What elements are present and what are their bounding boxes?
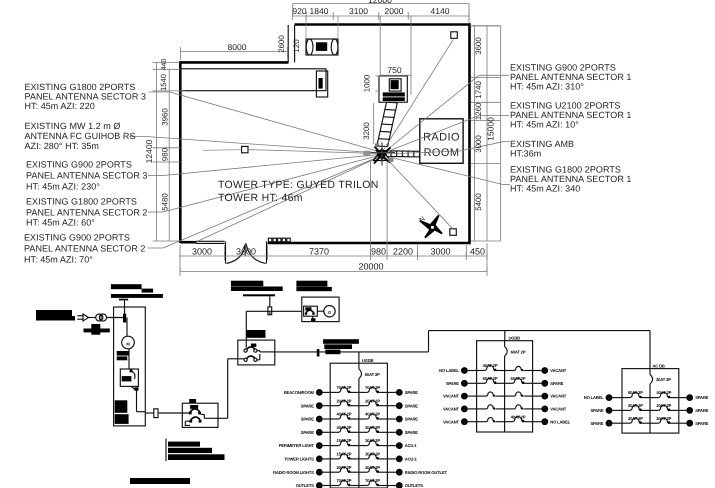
svg-text:VACANT: VACANT [550, 368, 567, 373]
ATS box utility side [182, 403, 218, 427]
svg-text:5480: 5480 [161, 193, 170, 211]
utility source label [36, 310, 72, 316]
svg-text:70AT 2P: 70AT 2P [365, 478, 380, 483]
generator set box [302, 297, 339, 322]
svg-text:8: 8 [543, 407, 546, 413]
panelboard AC DB [622, 369, 679, 434]
svg-text:40AT 2P: 40AT 2P [337, 412, 352, 417]
svg-text:3600: 3600 [236, 247, 256, 257]
svg-text:980: 980 [371, 247, 386, 257]
svg-text:2000: 2000 [385, 6, 404, 16]
fuel tank cylinder [306, 39, 338, 55]
svg-text:VACANT: VACANT [443, 407, 460, 412]
leader line G1800 sector2 [148, 211, 163, 213]
leader line U2100 sector1 [385, 116, 479, 153]
wire breaker down and out [136, 391, 138, 412]
main breaker box in cubicle [120, 369, 138, 386]
cubicle bottom label bars [115, 400, 128, 413]
cubicle heading label [111, 284, 142, 289]
svg-text:NO LABEL: NO LABEL [550, 419, 570, 424]
junction dot at incoming [123, 314, 126, 323]
svg-text:7: 7 [318, 430, 321, 436]
gate swing arcs [227, 244, 246, 264]
svg-text:RADIO: RADIO [423, 132, 460, 144]
svg-text:HT: 45m AZI: 230°: HT: 45m AZI: 230° [26, 182, 100, 192]
svg-text:9: 9 [463, 419, 466, 425]
svg-text:TOWER LIGHTS: TOWER LIGHTS [284, 457, 314, 462]
svg-text:1740: 1740 [474, 81, 483, 99]
svg-text:14: 14 [397, 470, 403, 476]
svg-text:10: 10 [397, 443, 403, 449]
transfer switch contacts lower [244, 358, 247, 361]
meter cubicle [114, 307, 146, 426]
horizontal cable ladder to radio room [388, 150, 420, 153]
svg-text:HT:36m: HT:36m [510, 149, 541, 159]
svg-text:4140: 4140 [431, 6, 450, 16]
dimension 8000 [181, 51, 288, 53]
svg-text:EXISTING AMB: EXISTING AMB [510, 139, 574, 149]
bus label bars [323, 339, 359, 344]
svg-text:3000: 3000 [474, 135, 483, 153]
svg-text:12: 12 [397, 457, 403, 463]
svg-text:6: 6 [543, 394, 546, 400]
cable ladder to tower from pad [377, 102, 387, 146]
svg-text:VACANT: VACANT [443, 419, 460, 424]
svg-text:AZI: 280° HT: 35m: AZI: 280° HT: 35m [25, 141, 99, 151]
ATS output wire [204, 417, 227, 419]
wire down to meter [126, 318, 128, 337]
svg-text:NO LABEL: NO LABEL [439, 368, 459, 373]
title bar [130, 478, 190, 484]
svg-text:20AT 2P: 20AT 2P [656, 403, 671, 408]
svg-text:VACANT: VACANT [550, 407, 567, 412]
svg-text:3200: 3200 [362, 122, 371, 140]
svg-text:750: 750 [387, 65, 401, 75]
svg-text:3000: 3000 [430, 247, 450, 257]
svg-text:5: 5 [608, 421, 611, 427]
generator earth stub [312, 316, 314, 319]
svg-text:SPARE: SPARE [695, 421, 708, 426]
UGDB circuit row 5 [316, 442, 323, 449]
svg-text:15000: 15000 [486, 117, 496, 141]
svg-text:PANEL ANTENNA SECTOR 2: PANEL ANTENNA SECTOR 2 [24, 244, 145, 254]
dimension 12000 top [293, 3, 469, 5]
svg-text:30AT 2P: 30AT 2P [365, 452, 380, 457]
meter label bars [117, 351, 130, 356]
guy anchor left [242, 146, 248, 152]
svg-text:11: 11 [317, 457, 322, 463]
svg-text:EXISTING G900 2PORTS: EXISTING G900 2PORTS [510, 63, 616, 73]
svg-text:9: 9 [318, 443, 321, 449]
UGDB circuit row 7 [316, 469, 323, 476]
leader line G1800 sector1 [385, 156, 503, 185]
bus riser to upper level [428, 331, 430, 352]
svg-text:70AT 2P: 70AT 2P [337, 385, 352, 390]
AC DB circuit row 2 [606, 407, 613, 414]
svg-text:HT: 45m AZI: 10°: HT: 45m AZI: 10° [510, 120, 579, 130]
AC DB circuit row 1 [606, 394, 613, 401]
svg-text:980: 980 [161, 147, 170, 161]
wall jog strip 2600 [287, 25, 289, 62]
svg-text:7: 7 [463, 407, 466, 413]
svg-text:EXISTING MW 1.2 m Ø: EXISTING MW 1.2 m Ø [25, 121, 121, 131]
svg-text:1000: 1000 [363, 74, 372, 92]
leader line MW antenna [129, 136, 146, 138]
riser into panelboard UGDB1 [358, 352, 360, 363]
svg-text:10: 10 [542, 419, 548, 425]
svg-text:PANEL ANTENNA SECTOR 1: PANEL ANTENNA SECTOR 1 [510, 72, 631, 82]
svg-text:1: 1 [608, 395, 611, 401]
riser into panelboard UGDB2 [504, 331, 506, 341]
svg-text:ANTENNA FC GUIHOB RS: ANTENNA FC GUIHOB RS [25, 131, 136, 141]
svg-text:OUTLETS: OUTLETS [296, 483, 314, 488]
svg-text:PANEL ANTENNA SECTOR 2: PANEL ANTENNA SECTOR 2 [26, 208, 147, 218]
ATS breaker upper [189, 412, 192, 415]
svg-text:RADIO ROOM LIGHTS: RADIO ROOM LIGHTS [273, 470, 314, 475]
svg-text:60AT 2P: 60AT 2P [483, 376, 498, 381]
svg-text:20AT 2P: 20AT 2P [656, 416, 671, 421]
svg-text:SPARE: SPARE [695, 408, 708, 413]
svg-text:SPARE: SPARE [446, 381, 459, 386]
dimension row 920/1840/3100/2000/4140 [293, 15, 469, 17]
svg-text:4: 4 [688, 408, 691, 414]
svg-text:G: G [328, 310, 331, 315]
cabinet at walkway end [316, 71, 327, 97]
north arrow [418, 215, 442, 237]
svg-text:40AT 2P: 40AT 2P [365, 412, 380, 417]
svg-text:40AT 2P: 40AT 2P [511, 414, 526, 419]
UGDB circuit row 2 [461, 380, 468, 387]
svg-text:4: 4 [398, 403, 401, 409]
svg-text:2200: 2200 [393, 247, 413, 257]
guy wire to south-west [197, 157, 380, 242]
UGDB circuit row 8 [316, 482, 323, 488]
metering CT coupling circles [96, 314, 103, 321]
svg-text:EXISTING G900 2PORTS: EXISTING G900 2PORTS [24, 233, 130, 243]
equipment 750 pad [379, 76, 407, 102]
svg-text:920: 920 [292, 6, 306, 16]
guy wire to bottom-right anchor [385, 157, 453, 229]
svg-text:5: 5 [318, 417, 321, 423]
svg-text:440: 440 [161, 59, 168, 71]
svg-text:UGDB: UGDB [362, 358, 374, 363]
svg-text:70AT 2P: 70AT 2P [337, 478, 352, 483]
fuse link [154, 409, 158, 418]
generator breaker sub-box [304, 306, 318, 316]
UGDB circuit row 1 [316, 389, 323, 396]
svg-text:20AT 2P: 20AT 2P [337, 465, 352, 470]
wire cubicle to fuse [145, 412, 154, 414]
svg-text:SPARE: SPARE [301, 403, 314, 408]
generator feeder label [231, 281, 263, 287]
svg-text:15: 15 [317, 483, 323, 488]
svg-text:20000: 20000 [358, 262, 383, 272]
svg-text:450: 450 [470, 247, 485, 257]
svg-text:30AT 2P: 30AT 2P [365, 438, 380, 443]
dimension 750 [380, 74, 411, 76]
svg-text:1540: 1540 [159, 74, 168, 91]
svg-text:6: 6 [688, 421, 691, 427]
UGDB circuit row 5 [461, 418, 468, 425]
transfer switch contacts upper [244, 349, 247, 352]
transformer cross symbol [91, 324, 100, 335]
svg-text:UGDB: UGDB [509, 335, 521, 340]
svg-text:EXISTING G1800 2PORTS: EXISTING G1800 2PORTS [26, 197, 137, 207]
gate posts [225, 242, 227, 264]
svg-text:1840: 1840 [310, 6, 329, 16]
AC DB circuit row 3 [606, 420, 613, 427]
svg-text:NO LABEL: NO LABEL [584, 395, 604, 400]
svg-text:SPARE: SPARE [405, 430, 418, 435]
svg-text:5: 5 [463, 394, 466, 400]
svg-text:SPARE: SPARE [301, 430, 314, 435]
leader line G900 sector3 [148, 175, 163, 177]
UGDB circuit row 3 [461, 393, 468, 400]
svg-text:3000: 3000 [192, 247, 212, 257]
kwh meter M [122, 336, 135, 349]
dimension 3200 vertical [373, 103, 375, 144]
compound wall top-right [268, 25, 470, 244]
bottom dimension row [180, 255, 487, 257]
svg-text:2: 2 [543, 368, 546, 374]
leader line G900 sector2 [148, 247, 163, 249]
bottom dimension 20000 [180, 271, 487, 273]
svg-text:PERIMETER LIGHT: PERIMETER LIGHT [279, 443, 315, 448]
compound wall left and top [180, 62, 288, 243]
svg-text:SPARE: SPARE [550, 381, 563, 386]
svg-text:SPARE: SPARE [405, 390, 418, 395]
cattle grid [268, 238, 271, 242]
radio room [420, 119, 463, 164]
UGDB circuit row 1 [461, 367, 468, 374]
svg-text:60AT 2P: 60AT 2P [511, 349, 526, 354]
guy anchor top-right [451, 32, 458, 39]
svg-text:3: 3 [463, 381, 466, 387]
svg-text:SPARE: SPARE [590, 421, 603, 426]
tower guyed trilon [364, 143, 396, 166]
UGDB circuit row 2 [316, 402, 323, 409]
leader line G900 sector1 [385, 75, 479, 151]
svg-text:60AT 2P: 60AT 2P [628, 390, 643, 395]
svg-text:TOWER TYPE: GUYED TRILON: TOWER TYPE: GUYED TRILON [218, 179, 379, 191]
guy wire to left anchor [248, 150, 379, 154]
UGDB circuit row 6 [316, 456, 323, 463]
svg-text:SPARE: SPARE [590, 408, 603, 413]
svg-text:PANEL ANTENNA SECTOR 1: PANEL ANTENNA SECTOR 1 [510, 110, 631, 120]
svg-text:4: 4 [543, 381, 546, 387]
walkway rectangle [180, 69, 326, 91]
svg-text:RADIO ROOM OUTLET: RADIO ROOM OUTLET [405, 470, 448, 475]
svg-text:20AT 2P: 20AT 2P [365, 398, 380, 403]
svg-text:EXISTING G1800 2PORTS: EXISTING G1800 2PORTS [25, 82, 136, 92]
svg-text:HT: 45m AZI: 310°: HT: 45m AZI: 310° [510, 82, 584, 92]
svg-text:2: 2 [688, 395, 691, 401]
svg-text:15AT 2P: 15AT 2P [337, 452, 352, 457]
svg-text:8: 8 [398, 430, 401, 436]
svg-text:TOWER HT: 46m: TOWER HT: 46m [218, 192, 303, 204]
panelboard UGDB [330, 363, 387, 488]
ATS breaker lower [189, 420, 192, 423]
riser to transfer switch [227, 359, 229, 419]
svg-text:1260: 1260 [474, 102, 483, 120]
gate leaf mark [244, 243, 246, 255]
svg-text:60AT 2P: 60AT 2P [365, 372, 380, 377]
wire CT to meter cubicle [107, 317, 125, 319]
svg-text:15AT 2P: 15AT 2P [337, 438, 352, 443]
svg-text:2: 2 [398, 390, 401, 396]
svg-text:HT: 45m AZI: 60°: HT: 45m AZI: 60° [26, 218, 95, 228]
svg-text:3100: 3100 [349, 6, 368, 16]
svg-text:PANEL ANTENNA SECTOR 3: PANEL ANTENNA SECTOR 3 [25, 92, 146, 102]
svg-text:BEACON/ROOM: BEACON/ROOM [284, 390, 315, 395]
label bars below feeder [165, 439, 167, 462]
svg-text:SPARE: SPARE [405, 403, 418, 408]
svg-text:VACANT: VACANT [443, 394, 460, 399]
svg-text:6: 6 [398, 417, 401, 423]
panelboard UGDB [477, 341, 533, 432]
breaker outlet tick [135, 387, 139, 390]
svg-text:SPARE: SPARE [405, 417, 418, 422]
left dimension chain 12400 [155, 62, 157, 241]
main bus to distribution boards [275, 351, 429, 353]
utility service entrance arrow [77, 315, 83, 317]
pad witness lines [379, 16, 381, 76]
guy anchor bottom-right [450, 229, 457, 236]
svg-text:70AT 2P: 70AT 2P [365, 385, 380, 390]
svg-text:5400: 5400 [474, 193, 483, 211]
svg-text:20AT 2P: 20AT 2P [365, 465, 380, 470]
svg-text:PANEL ANTENNA SECTOR 1: PANEL ANTENNA SECTOR 1 [510, 174, 631, 184]
svg-text:60AT 2P: 60AT 2P [511, 376, 526, 381]
svg-text:PANEL ANTENNA SECTOR 3: PANEL ANTENNA SECTOR 3 [26, 171, 147, 181]
svg-text:3: 3 [608, 408, 611, 414]
svg-text:20AT 2P: 20AT 2P [337, 398, 352, 403]
svg-text:AC DB: AC DB [653, 363, 665, 368]
svg-text:30AT 2P: 30AT 2P [656, 377, 671, 382]
leader line G1800 sector3 [148, 91, 170, 93]
transfer switch box [238, 340, 275, 365]
compound wall bottom-left of gate [180, 241, 196, 244]
UGDB circuit row 4 [461, 406, 468, 413]
svg-text:40AT 2P: 40AT 2P [483, 363, 498, 368]
svg-text:12000: 12000 [368, 0, 392, 5]
svg-text:EXISTING G1800 2PORTS: EXISTING G1800 2PORTS [510, 165, 621, 175]
svg-text:40AT 2P: 40AT 2P [656, 390, 671, 395]
UGDB circuit row 4 [316, 429, 323, 436]
svg-text:16: 16 [397, 483, 403, 488]
bus junction tick [317, 349, 320, 356]
svg-text:EXISTING G900 2PORTS: EXISTING G900 2PORTS [26, 160, 132, 170]
transfer switch output [260, 351, 275, 353]
svg-text:HT: 45m AZI: 340: HT: 45m AZI: 340 [510, 184, 580, 194]
svg-text:12400: 12400 [144, 139, 154, 163]
svg-text:8000: 8000 [228, 42, 247, 52]
svg-text:20AT 2P: 20AT 2P [628, 403, 643, 408]
generator drop wire with fuse [269, 297, 271, 307]
svg-text:ACU-1: ACU-1 [405, 443, 418, 448]
right dimension chain 15000 [474, 26, 476, 241]
guy wire to top-right anchor [384, 38, 455, 150]
svg-text:SPARE: SPARE [301, 417, 314, 422]
riser into panelboard AC DB [649, 331, 651, 369]
neutral T bar [119, 299, 128, 301]
leader line AMB [385, 151, 460, 154]
svg-text:120: 120 [292, 39, 301, 53]
svg-text:1: 1 [318, 390, 321, 396]
wire meter to breaker [128, 349, 130, 369]
svg-text:EXISTING U2100 2PORTS: EXISTING U2100 2PORTS [510, 101, 620, 111]
UGDB circuit row 3 [316, 416, 323, 423]
svg-text:2600: 2600 [277, 35, 286, 53]
svg-text:OUTLETS: OUTLETS [405, 483, 423, 488]
svg-text:SPARE: SPARE [695, 395, 708, 400]
svg-text:ROOM: ROOM [424, 147, 460, 159]
svg-text:ACU-2: ACU-2 [405, 457, 418, 462]
svg-text:3: 3 [318, 403, 321, 409]
svg-text:VACANT: VACANT [550, 394, 567, 399]
svg-text:3960: 3960 [161, 108, 170, 126]
svg-text:1: 1 [463, 368, 466, 374]
svg-text:13: 13 [317, 470, 323, 476]
svg-text:7370: 7370 [309, 247, 329, 257]
svg-text:40AT 2P: 40AT 2P [337, 425, 352, 430]
svg-text:HT: 45m AZI: 70°: HT: 45m AZI: 70° [24, 255, 93, 265]
generator G circle [317, 310, 324, 312]
svg-text:20AT 2P: 20AT 2P [365, 425, 380, 430]
svg-text:HT: 45m AZI: 220: HT: 45m AZI: 220 [25, 101, 95, 111]
svg-text:3600: 3600 [474, 37, 483, 55]
svg-text:20AT 2P: 20AT 2P [628, 416, 643, 421]
